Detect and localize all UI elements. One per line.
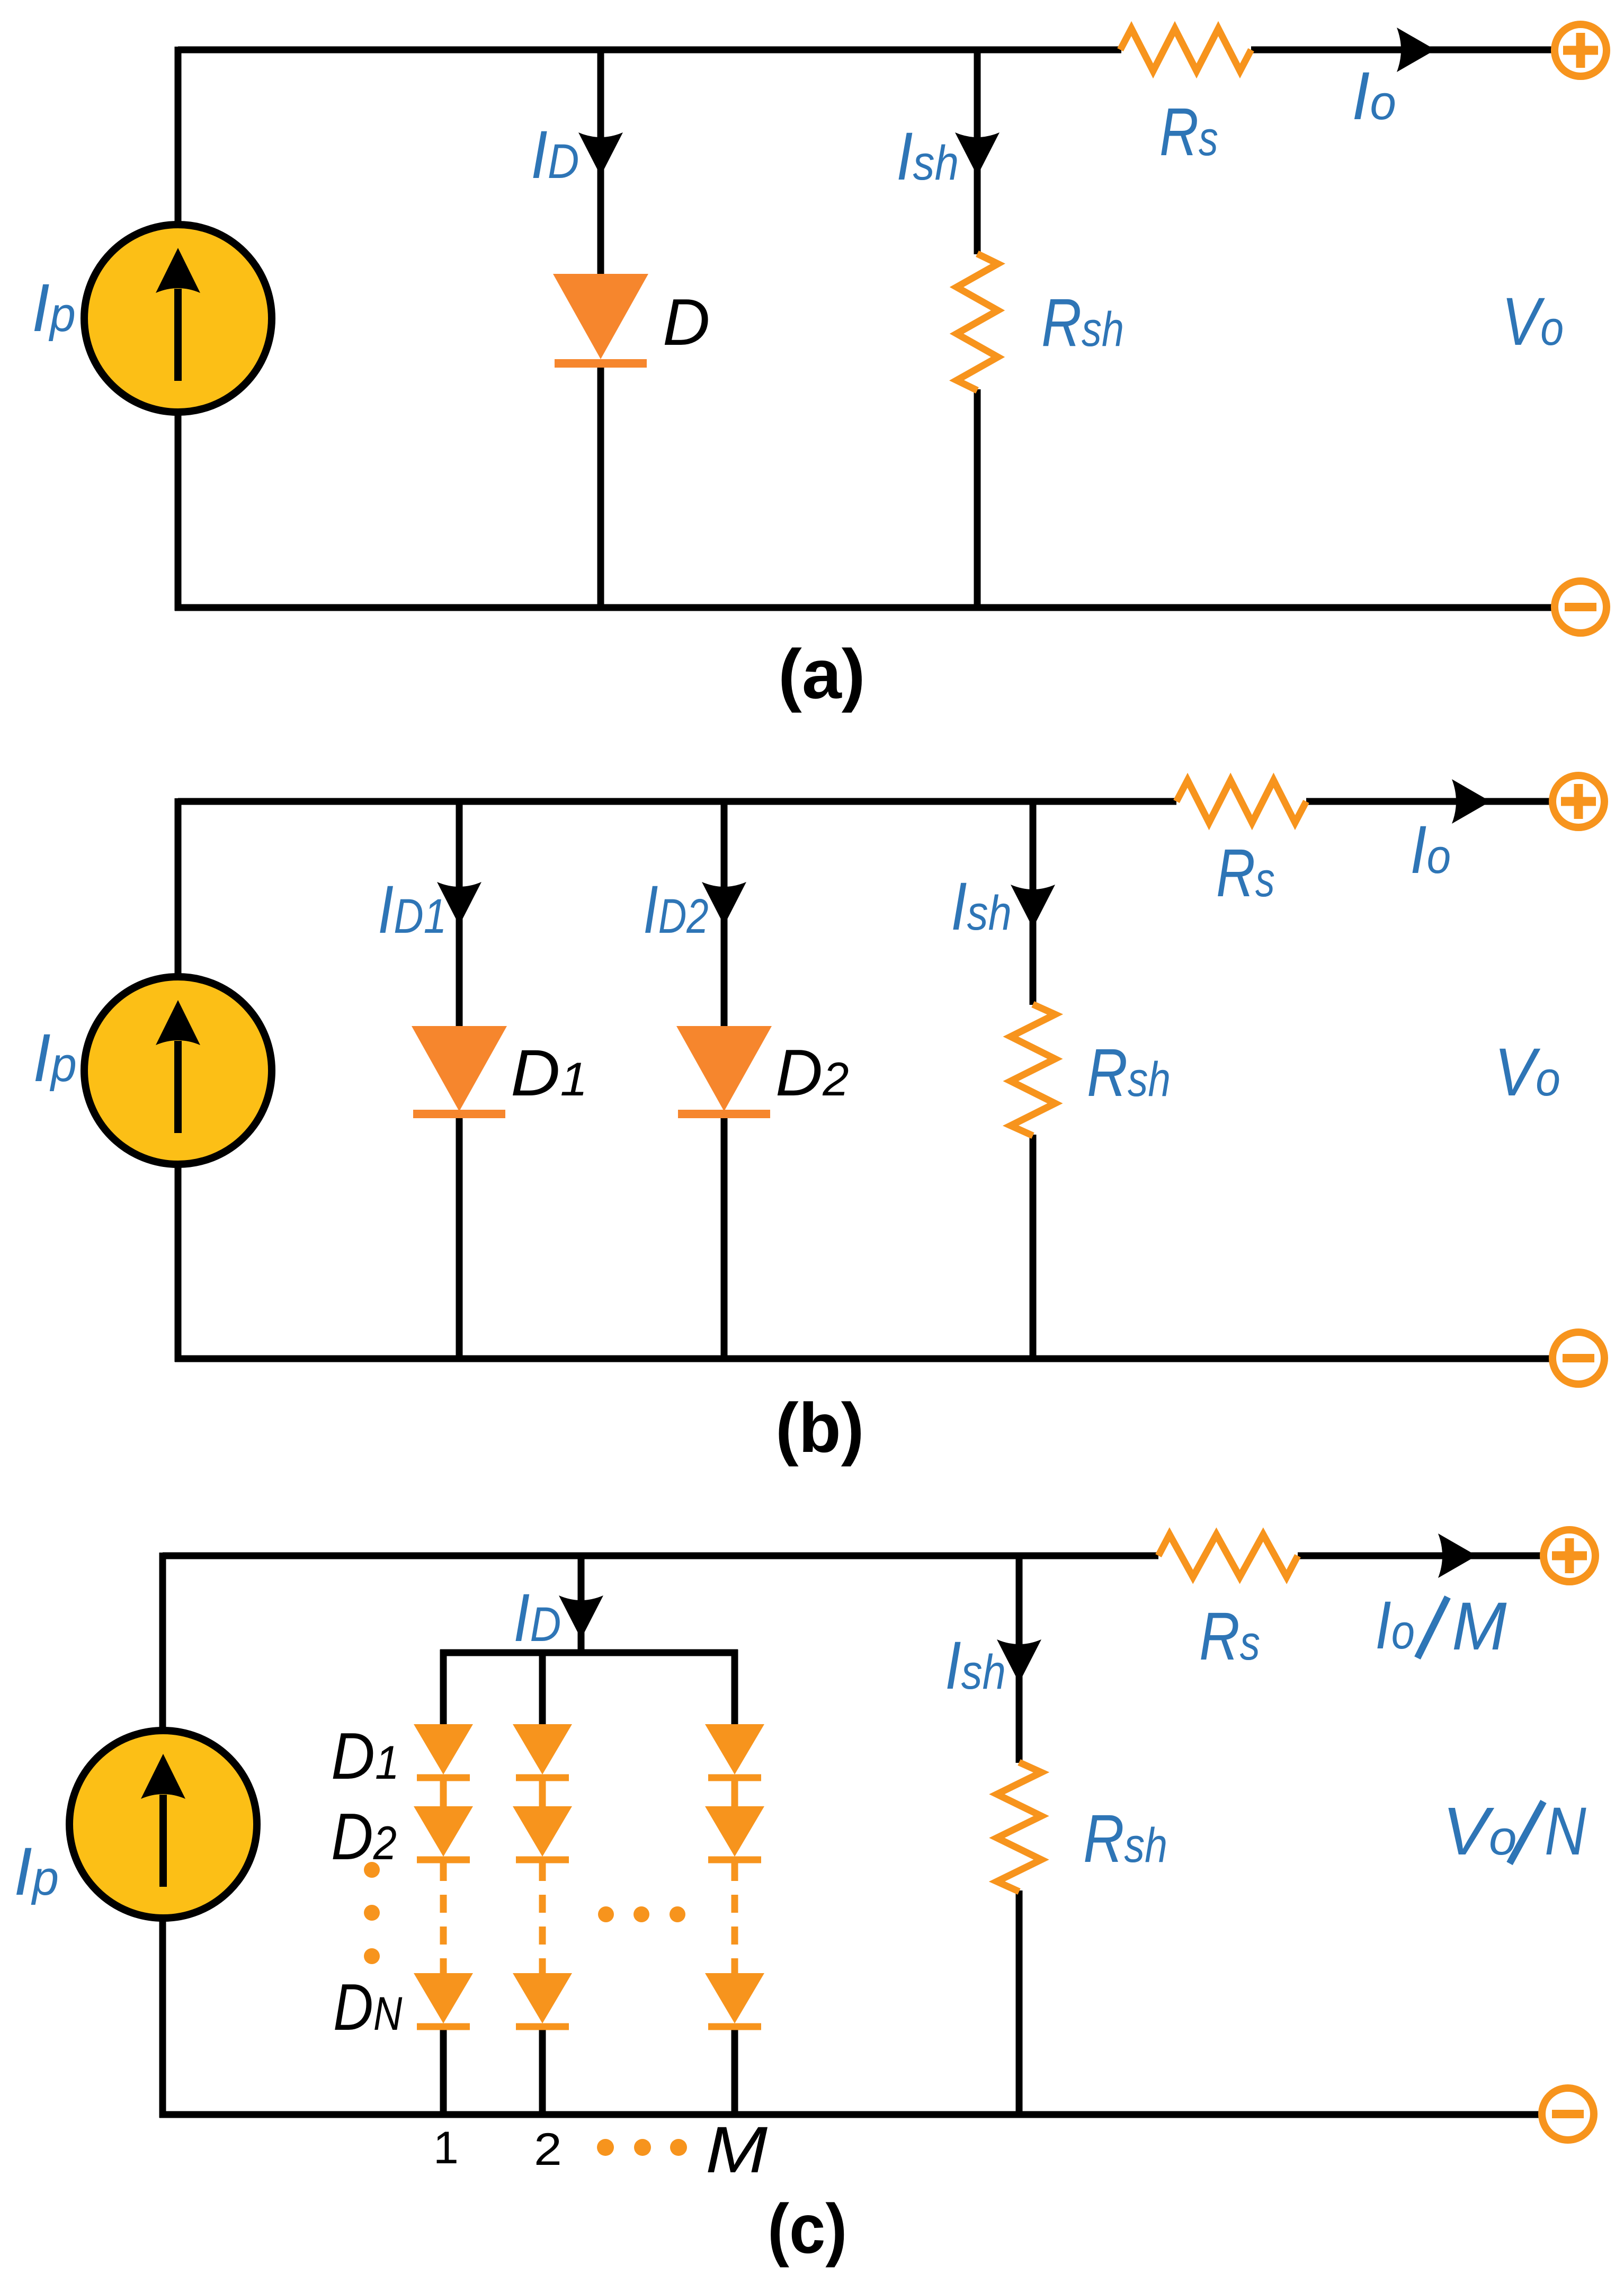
wire: string 1 upper stub (c) xyxy=(440,1649,447,1727)
current arrow Io (b) xyxy=(1452,779,1491,824)
wire: top rail right (c) xyxy=(1298,1553,1541,1559)
diode string 2: D1..DN (c) xyxy=(513,1724,572,2027)
wire: bottom rail (b) xyxy=(175,1355,1549,1362)
current arrow ID (a) xyxy=(578,132,623,176)
wire: top rail left (c) xyxy=(163,1553,1158,1559)
terminal plus (a) xyxy=(1555,24,1607,76)
svg-text:(b): (b) xyxy=(775,1389,864,1467)
wire: Rsh branch lower (a) xyxy=(974,389,981,608)
resistor Rsh (b) xyxy=(1011,1004,1055,1136)
current arrow Io (a) xyxy=(1397,28,1435,72)
diode string 1: D1..DN (c) xyxy=(414,1724,473,2027)
wire: top rail left (a) xyxy=(178,47,1121,53)
svg-text:M: M xyxy=(706,2113,768,2187)
wire: diode D branch upper (a) xyxy=(597,50,604,286)
wire: top rail left (b) xyxy=(178,798,1176,805)
resistor Rs (a) xyxy=(1120,29,1251,71)
wire: string 2 upper stub (c) xyxy=(539,1649,546,1727)
current arrow Ish (b) xyxy=(1011,885,1055,928)
ellipsis dots middle (c) xyxy=(598,1906,685,1922)
current arrow Ish (c) xyxy=(997,1639,1041,1683)
current arrow Io/M (c) xyxy=(1438,1533,1477,1578)
svg-text:(a): (a) xyxy=(778,635,865,713)
diode D1 (b) xyxy=(412,1026,507,1114)
wire: string M lower segment (c) xyxy=(731,2027,738,2115)
terminal plus (c) xyxy=(1543,1530,1595,1582)
svg-text:M: M xyxy=(1452,1588,1507,1664)
resistor Rsh (c) xyxy=(997,1762,1041,1892)
current source Ip (a) xyxy=(84,225,272,412)
wire: diode D branch lower (a) xyxy=(597,360,604,608)
wire: Rsh branch lower (b) xyxy=(1030,1135,1037,1359)
wire: diode D1 branch upper (b) xyxy=(456,801,463,1038)
wire: left rail (a) xyxy=(175,47,182,611)
wire: bottom rail (a) xyxy=(175,604,1551,611)
current arrow ID (c) xyxy=(559,1595,603,1639)
terminal minus (c) xyxy=(1542,2088,1594,2140)
wire: diode bus (c) xyxy=(440,1649,738,1656)
svg-text:D: D xyxy=(663,286,710,359)
wire: top rail right (b) xyxy=(1306,798,1550,805)
diode string M: D1..DN (c) xyxy=(705,1724,764,2027)
svg-text:N: N xyxy=(1545,1794,1586,1869)
slash of Vo/N (c) xyxy=(1510,1802,1543,1863)
wire: diode D1 branch lower (b) xyxy=(456,1112,463,1359)
wire: Rsh branch upper (c) xyxy=(1016,1556,1023,1763)
wire: ID stub to diode bus (c) xyxy=(578,1556,585,1653)
resistor Rsh (a) xyxy=(957,254,998,390)
terminal minus (b) xyxy=(1552,1332,1604,1384)
wire: string 2 lower segment (c) xyxy=(539,2027,546,2115)
wire: Rsh branch lower (c) xyxy=(1016,1890,1023,2115)
terminal plus (b) xyxy=(1552,775,1604,827)
terminal minus (a) xyxy=(1555,581,1607,633)
wire: left rail (b) xyxy=(175,798,182,1362)
diode D2 (b) xyxy=(676,1026,772,1114)
ellipsis dots vertical (c) xyxy=(364,1862,380,1964)
current arrow Ish (a) xyxy=(955,132,1000,176)
wire: left rail (c) xyxy=(159,1553,166,2118)
wire: Rsh branch upper (a) xyxy=(974,50,981,254)
wire: string M upper stub (c) xyxy=(731,1649,738,1727)
wire: bottom rail (c) xyxy=(159,2111,1539,2118)
wire: top rail right (a) xyxy=(1251,47,1552,53)
wire: string 1 lower segment (c) xyxy=(440,2027,447,2115)
svg-text:2: 2 xyxy=(534,2124,562,2175)
current arrow ID2 (b) xyxy=(702,882,746,925)
wire: Rsh branch upper (b) xyxy=(1030,801,1037,1005)
diode D (a) xyxy=(553,274,648,363)
resistor Rs (b) xyxy=(1176,780,1306,823)
wire: diode D2 branch upper (b) xyxy=(721,801,728,1038)
svg-text:1: 1 xyxy=(433,2123,459,2173)
svg-text:(c): (c) xyxy=(768,2190,847,2268)
wire: diode D2 branch lower (b) xyxy=(721,1112,728,1359)
slash of Io/M (c) xyxy=(1417,1597,1448,1658)
resistor Rs (c) xyxy=(1158,1535,1298,1577)
ellipsis dots bottom (c) xyxy=(597,2139,687,2156)
current source Ip (c) xyxy=(69,1731,257,1918)
current source Ip (b) xyxy=(84,977,272,1164)
current arrow ID1 (b) xyxy=(437,882,481,925)
